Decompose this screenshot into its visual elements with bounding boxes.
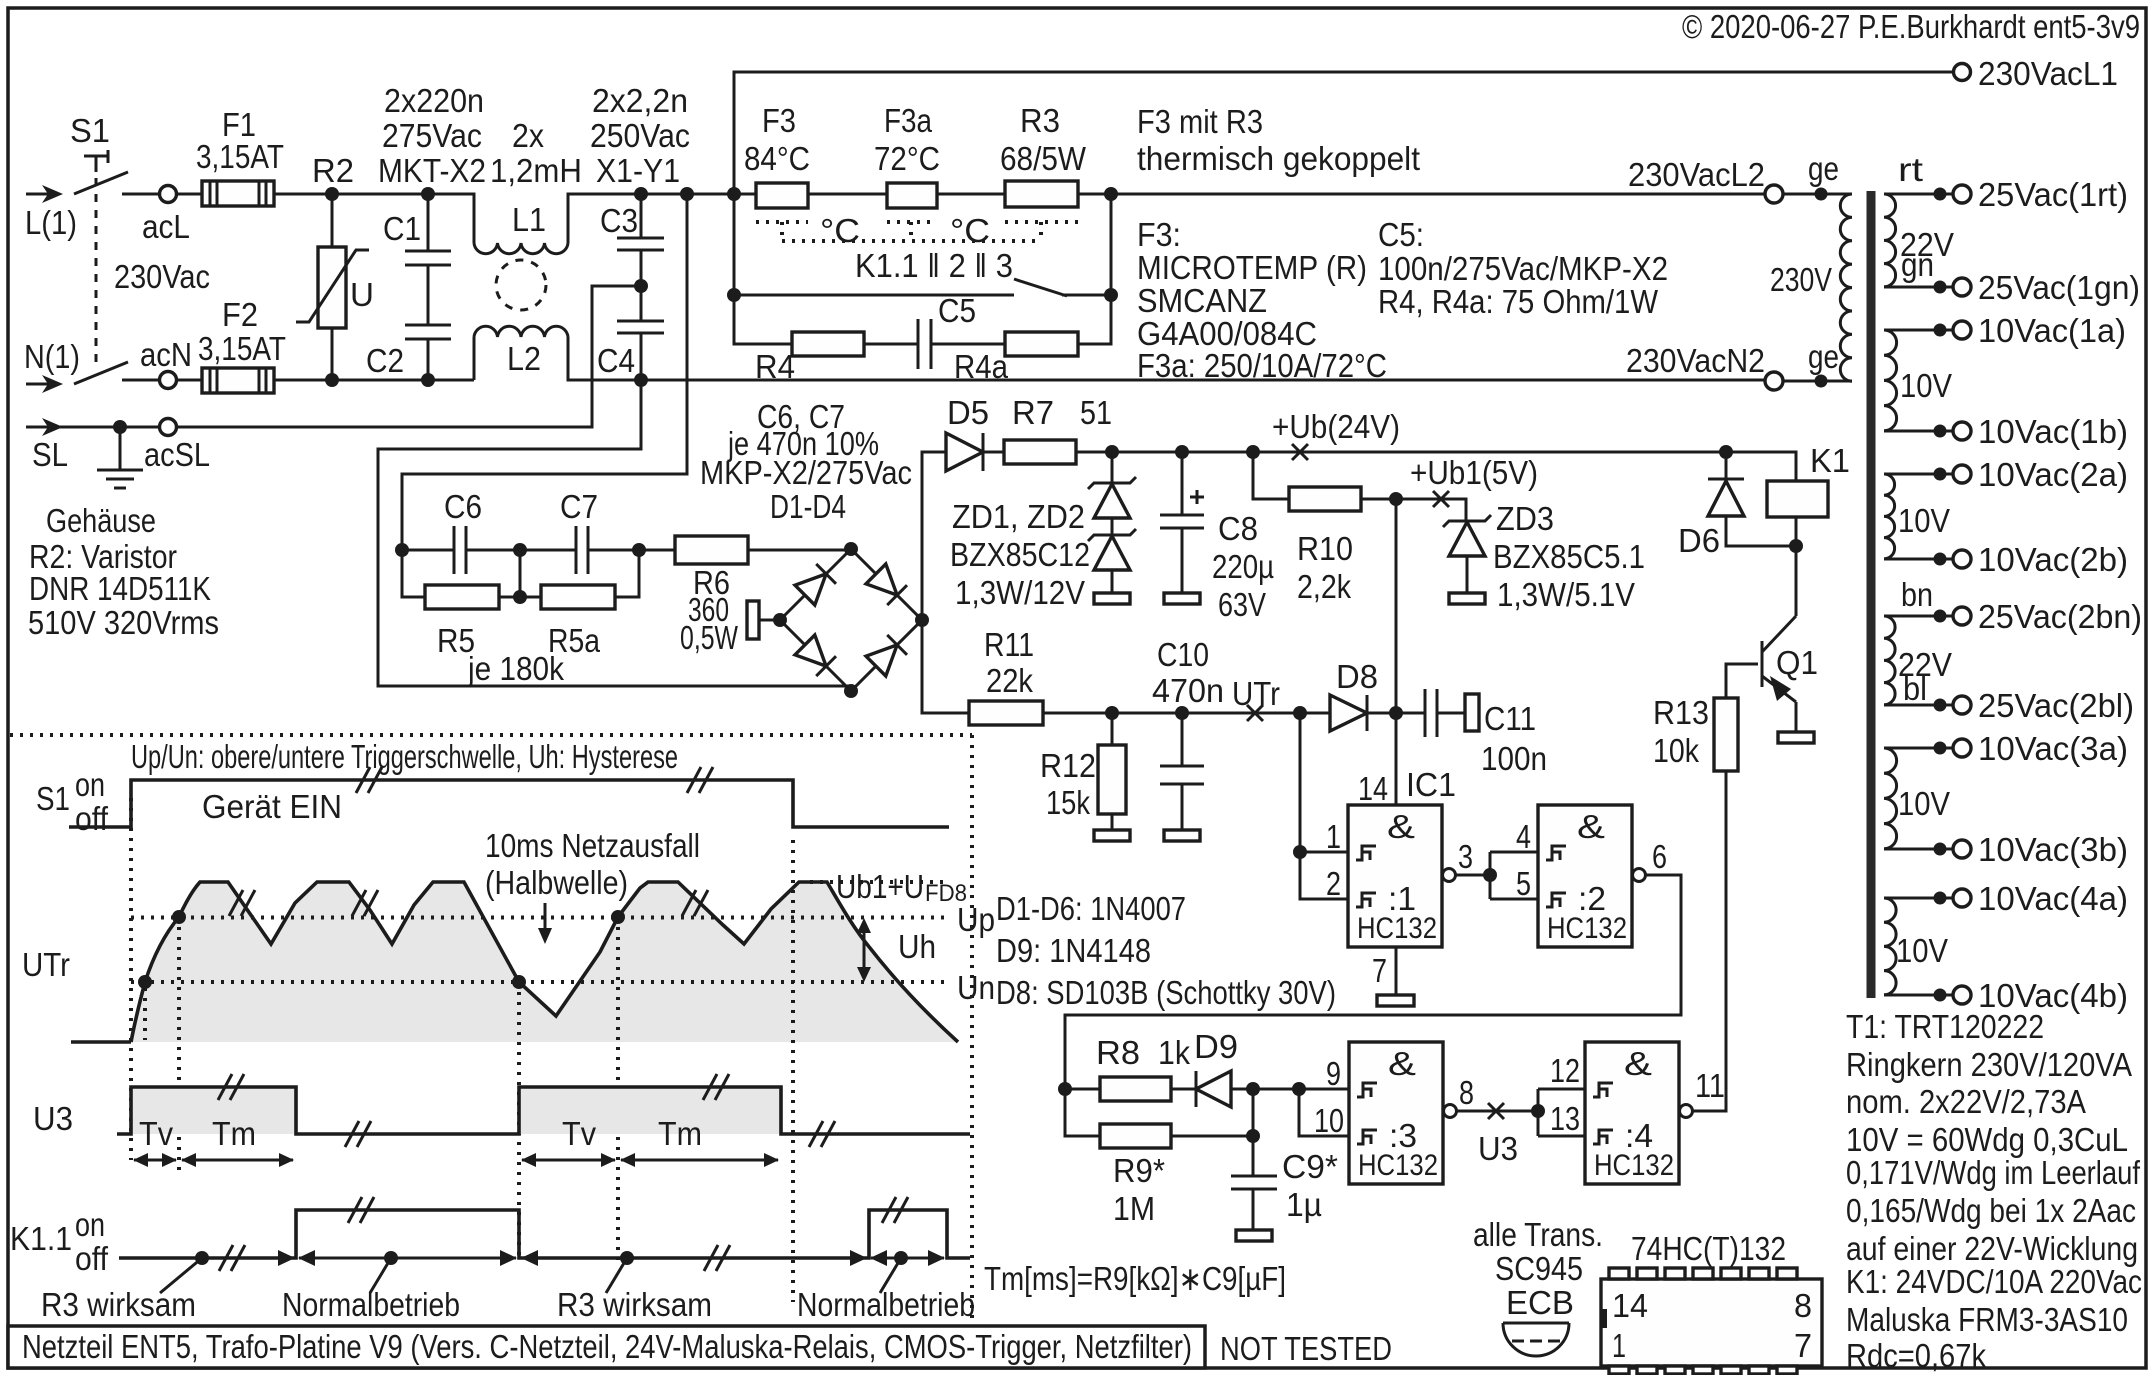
svg-text:C9*: C9* [1282,1148,1338,1185]
relay contact K1.1 blade [1014,279,1067,296]
svg-text:1: 1 [1326,818,1341,855]
capacitor C11 [1396,689,1479,737]
transistor Q1 [1762,616,1796,702]
wire tap 4b [1884,994,1953,997]
switch S1 pole L blade [74,172,128,194]
svg-text:L2: L2 [507,340,541,377]
callout line Normalbetrieb 2 [880,1258,901,1293]
svg-text:1,3W/12V: 1,3W/12V [955,574,1085,611]
svg-text:C7: C7 [560,488,598,525]
wire R5 to R5a [499,596,541,599]
wire N2 to primary [1783,380,1852,383]
node L-C1 [421,187,435,201]
dotted level Un [131,980,947,984]
svg-text:0,171V/Wdg im Leerlauf: 0,171V/Wdg im Leerlauf [1846,1154,2141,1191]
resistor R7 [1004,440,1076,464]
wire R8 to D9 [1171,1088,1196,1091]
wire N to acN [122,379,160,382]
secondary winding 22V-1 [1884,194,1896,287]
wire bridge plus down to R11 [922,620,969,713]
svg-text:S1: S1 [70,112,110,149]
arrow Tm2 [620,1153,779,1167]
svg-text:K1: K1 [1810,442,1850,479]
arrow Tm1 [181,1153,294,1167]
svg-text:acSL: acSL [144,436,210,473]
node rail R10 [1246,445,1260,459]
svg-text:acL: acL [142,208,190,245]
wire L(1) input [26,185,63,203]
svg-text:nom. 2x22V/2,73A: nom. 2x22V/2,73A [1846,1083,2086,1120]
wire bridge plus up to D5 [922,452,946,620]
svg-text:Gerät EIN: Gerät EIN [202,788,342,825]
svg-text:25Vac(2bn): 25Vac(2bn) [1978,598,2142,635]
capacitor C5 [918,319,931,369]
svg-text:0,165/Wdg bei 1x 2Aac: 0,165/Wdg bei 1x 2Aac [1846,1192,2136,1229]
dotted vertical Tv1 [177,917,181,1172]
capacitor C3 [617,194,664,286]
svg-text:10V = 60Wdg 0,3CuL: 10V = 60Wdg 0,3CuL [1846,1121,2128,1158]
terminal acSL [160,419,177,436]
svg-text:UTr: UTr [22,946,70,983]
terminal 25Vac(1gn) [1953,278,1971,296]
switch S1 linkage dashed [84,150,108,366]
arrow Tv2 [521,1153,616,1167]
node callout2 [384,1251,398,1265]
svg-text:10V: 10V [1900,367,1952,404]
secondary winding 10V-2 [1884,474,1895,559]
node L-branch [680,187,694,201]
svg-text:230VacL2: 230VacL2 [1628,156,1765,193]
terminal acN [160,372,177,389]
ground ZD2 [1094,593,1130,604]
pin7 ground wire [1395,947,1398,995]
node R3 right [1104,187,1118,201]
svg-text:R4, R4a: 75 Ohm/1W: R4, R4a: 75 Ohm/1W [1378,283,1659,320]
wire N to transformer [641,379,1766,382]
node bridge top [844,542,858,556]
node IC1 input tap [1293,706,1307,720]
wire Ub1 rail down [1395,499,1398,805]
svg-text:10Vac(2a): 10Vac(2a) [1978,456,2128,493]
svg-text:R11: R11 [984,626,1034,663]
net mark UTr [1247,705,1263,721]
capacitor C2 [405,325,451,380]
wire tap 3b [1884,848,1953,851]
node 2a [1934,468,1947,481]
wire R6 to bridge top [748,549,851,552]
node UTr Un fall [512,975,526,989]
wire F3a to R3 [937,193,1005,196]
svg-text:Tm: Tm [212,1115,256,1152]
svg-text:R7: R7 [1012,394,1054,431]
svg-text:51: 51 [1080,394,1112,431]
svg-text:Tv: Tv [562,1115,596,1152]
svg-text:X1-Y1: X1-Y1 [596,152,680,189]
svg-text:14: 14 [1612,1287,1648,1324]
wire L to F3 node [641,193,756,196]
schmitt mark gate2 b [1546,893,1566,907]
wire F1 to node R2 [274,193,428,196]
node pins1213 [1531,1104,1545,1118]
svg-text:1,2mH: 1,2mH [490,152,582,189]
svg-text:SMCANZ: SMCANZ [1137,282,1267,319]
svg-text:8: 8 [1459,1074,1474,1111]
break S1 a [356,767,382,793]
svg-text:230VacL1: 230VacL1 [1978,55,2118,92]
wire jog pins 4 5 [1490,852,1538,899]
svg-text:DNR 14D511K: DNR 14D511K [29,570,211,607]
break UTr a [229,890,255,916]
diode D9 [1196,1071,1299,1107]
node C10 [1175,706,1189,720]
svg-text:10Vac(1b): 10Vac(1b) [1978,413,2128,450]
ground Gehaeuse [97,427,143,488]
svg-text:D5: D5 [947,394,989,431]
node 4b [1934,989,1947,1002]
node bridge left [773,613,787,627]
svg-text:(Halbwelle): (Halbwelle) [485,864,628,901]
svg-text:R13: R13 [1653,694,1709,731]
node 1b [1934,425,1947,438]
resistor R11 [969,701,1043,725]
node N-R2 [325,373,339,387]
output bubble pin8 [1444,1105,1457,1118]
capacitor C10 [1160,713,1204,830]
wire pin 1 [1300,851,1348,854]
schmitt mark gate2 a [1546,846,1566,860]
svg-text:C4: C4 [597,342,635,379]
node ge bottom [1815,375,1828,388]
svg-text:10Vac(2b): 10Vac(2b) [1978,541,2128,578]
arrow K1.1 seg4 [870,1250,945,1266]
wire UTr row [1043,712,1330,715]
terminal 25Vac(2bl) [1953,696,1971,714]
waveform UTr curve [131,882,958,1042]
resistor R4 [792,332,864,356]
arrow K1.1 seg2 [298,1250,517,1266]
switch S1 pole N blade [74,362,128,384]
svg-text:10Vac(4a): 10Vac(4a) [1978,880,2128,917]
svg-text:Maluska FRM3-3AS10: Maluska FRM3-3AS10 [1846,1301,2128,1338]
net mark +Ub1(5V) [1433,491,1449,507]
wire jog pins 12 13 [1538,1089,1585,1136]
svg-text:1M: 1M [1113,1190,1155,1227]
IC package notch [1601,1309,1607,1328]
resistor R12 [1098,713,1126,830]
svg-text:UTr: UTr [1232,675,1280,712]
svg-text:10Vac(1a): 10Vac(1a) [1978,312,2126,349]
svg-text:D8: D8 [1336,658,1378,695]
wire tap 1gn [1884,286,1953,289]
svg-text:2x: 2x [512,117,544,154]
schmitt mark gate3 b [1357,1130,1377,1144]
svg-text:C2: C2 [366,342,404,379]
svg-text:D6: D6 [1678,522,1720,559]
IC package 74HC132 body [1601,1279,1822,1366]
svg-text:ECB: ECB [1506,1284,1574,1321]
svg-text:U3: U3 [1478,1130,1518,1167]
svg-text:auf einer 22V-Wicklung: auf einer 22V-Wicklung [1846,1230,2138,1267]
svg-text:Q1: Q1 [1776,644,1818,681]
svg-text:S1: S1 [36,780,70,817]
break U3 a [218,1074,244,1100]
svg-text:F2: F2 [222,296,258,333]
break U3 c [703,1074,729,1100]
wire +Ub rail [1076,451,1726,454]
svg-text:10Vac(3a): 10Vac(3a) [1978,730,2128,767]
schmitt mark gate4 a [1593,1083,1613,1097]
wire K1.1 branch left [734,194,792,344]
svg-text:&: & [1387,808,1415,845]
schmitt mark gate4 b [1593,1130,1613,1144]
trace K1.1 [119,1210,970,1258]
wire R9 to C9 [1171,1135,1253,1138]
fill U3 pulse1 [131,1087,296,1134]
gate IC1:3 body [1349,1042,1443,1184]
net mark U3 [1488,1103,1504,1119]
node D9 C9 [1246,1082,1260,1096]
svg-text:R9*: R9* [1113,1152,1165,1189]
fuse F1 [202,181,274,206]
node callout4 [894,1251,908,1265]
node SL ground [113,420,127,434]
node 1rt [1934,188,1947,201]
svg-text:Up: Up [957,901,995,938]
wire jog pin10 [1299,1089,1349,1136]
wire UTr to IC1 inputs [1300,713,1348,899]
break S1 b [687,767,713,793]
svg-text:230V: 230V [1770,261,1832,298]
svg-text:4: 4 [1516,818,1531,855]
wire R13 to base [1726,664,1758,698]
thermal coupling dotted [756,222,1078,241]
transistor SC945 case bottom view [1503,1323,1569,1356]
svg-text:D9: 1N4148: D9: 1N4148 [996,932,1151,969]
node 2bn [1934,610,1947,623]
node UTr Un rise [138,975,152,989]
dotted vertical fall Un [517,982,521,1262]
svg-text:T1: TRT120222: T1: TRT120222 [1846,1008,2044,1045]
svg-text:© 2020-06-27 P.E.Burkhardt ent: © 2020-06-27 P.E.Burkhardt ent5-3v9 [1682,8,2140,45]
node bridge bottom [844,684,858,698]
wire acN to F2 [177,379,202,382]
svg-text:R3: R3 [1020,102,1060,139]
svg-text:R3 wirksam: R3 wirksam [41,1286,196,1323]
wire L2 to primary [1783,193,1852,196]
svg-text:10V: 10V [1898,502,1950,539]
svg-text:3: 3 [1458,838,1473,875]
svg-text:Normalbetrieb: Normalbetrieb [282,1286,460,1323]
wire R8R9 left [1065,1089,1100,1136]
terminal 10Vac(4b) [1953,986,1971,1004]
node 1a [1934,324,1947,337]
connector pad at bridge minus [747,601,780,639]
terminal 10Vac(4a) [1953,889,1971,907]
node K1 bottom [1789,539,1803,553]
wire acSL to C3C4 mid [177,286,641,427]
wire SL to acSL [60,426,160,429]
node R12 [1105,706,1119,720]
svg-text:C11: C11 [1484,700,1536,737]
svg-text:on: on [75,1206,105,1243]
node R8 left [1058,1082,1072,1096]
node K1.1 left [727,288,741,302]
break UTr c [682,890,708,916]
node Ub1 [1389,492,1403,506]
arrow netzausfall [538,903,552,944]
wire K1.1 right [1062,294,1111,297]
svg-text:alle Trans.: alle Trans. [1473,1216,1603,1253]
wire F2 to C2 node [274,379,474,382]
fuse F2 [202,368,274,393]
svg-text:SL: SL [32,436,68,473]
diode D5 [946,433,1004,471]
svg-text:250Vac: 250Vac [590,117,690,154]
svg-text:R8: R8 [1096,1034,1140,1071]
svg-text:13: 13 [1550,1100,1580,1137]
terminal acL [160,186,177,203]
svg-text:Un: Un [957,969,995,1006]
svg-text:470n: 470n [1152,672,1224,709]
zener ZD1 [1088,452,1136,518]
arrow Uh [857,918,871,982]
wire R4 to C5 [864,343,918,346]
wire tap 2bn [1884,615,1953,618]
wire 230VacL1 rail [734,72,1954,194]
svg-text:F3: F3 [762,102,796,139]
ground Q1 [1778,732,1814,743]
ground pin7 [1377,995,1414,1006]
break K1.1 b [348,1197,374,1223]
svg-text:10k: 10k [1653,732,1699,769]
svg-text:11: 11 [1695,1067,1725,1104]
thermal fuse F3a [887,183,937,208]
wire pin6 feedback [1065,875,1681,1089]
wire L-branch to C6 ladder [402,194,687,550]
node UTr Up rise2 [611,910,625,924]
bridge rectifier D1-D4 frame [780,549,922,691]
node rail K1 [1719,445,1733,459]
diode D2 (top-right edge) [866,564,907,605]
svg-text:Tm: Tm [658,1115,702,1152]
svg-text:D8: SD103B (Schottky 30V): D8: SD103B (Schottky 30V) [996,974,1336,1011]
node 4a [1934,892,1947,905]
wire tap 2a [1884,473,1953,476]
schmitt mark gate1 a [1356,846,1376,860]
svg-text:HC132: HC132 [1357,912,1437,945]
output bubble pin11 [1680,1105,1693,1118]
svg-text:275Vac: 275Vac [382,117,482,154]
capacitor C9 [1231,1089,1277,1230]
node R9 C9 [1246,1129,1260,1143]
svg-text:F3 mit R3: F3 mit R3 [1137,103,1263,140]
svg-text:C8: C8 [1218,510,1258,547]
svg-text:100n: 100n [1481,740,1547,777]
svg-text:R3 wirksam: R3 wirksam [557,1286,712,1323]
svg-text:MKT-X2: MKT-X2 [378,152,486,189]
node C6 row left [395,543,409,557]
node R5-R5a [513,590,527,604]
diode D8 [1330,695,1396,731]
wire R8 row [1065,1088,1100,1091]
ground C8 [1164,593,1200,604]
node bridge right [915,613,929,627]
resistor R5 [425,585,499,609]
svg-text:2x2,2n: 2x2,2n [592,82,688,119]
terminal 10Vac(1b) [1953,422,1971,440]
diode D4 (bottom-right edge) [866,635,907,676]
ground R12 [1094,830,1130,841]
node pin9 tap [1292,1082,1306,1096]
svg-text:R10: R10 [1297,530,1353,567]
svg-text:R12: R12 [1040,747,1096,784]
svg-text:C1: C1 [383,210,421,247]
svg-text:Ringkern 230V/120VA: Ringkern 230V/120VA [1846,1046,2132,1083]
svg-text:SC945: SC945 [1495,1250,1583,1287]
svg-text:BZX85C5.1: BZX85C5.1 [1493,538,1645,575]
capacitor C6 [402,526,520,574]
net mark +Ub(24V) [1292,444,1308,460]
diode D1 (left-top edge) [795,564,836,605]
break K1.1 c [704,1245,730,1271]
svg-text:10: 10 [1314,1102,1344,1139]
wire R5a right vertical [615,550,639,597]
svg-text:ge: ge [1808,150,1839,187]
resistor R4a [1005,332,1078,356]
svg-text:&: & [1388,1045,1416,1082]
resistor R10 [1289,487,1361,511]
svg-text:7: 7 [1372,952,1387,989]
inductor L1 [428,194,641,254]
svg-text:NOT TESTED: NOT TESTED [1220,1330,1392,1367]
svg-text:C3: C3 [600,202,638,239]
wire SL input [26,418,63,436]
timing diagram dotted border [10,735,972,1326]
svg-text:K1.1 ‖ 2 ‖ 3: K1.1 ‖ 2 ‖ 3 [855,247,1013,284]
output bubble pin3 [1443,869,1456,882]
svg-text:15k: 15k [1046,784,1090,821]
wire rail to K1 [1726,452,1796,481]
wire R10 branch [1253,452,1289,499]
svg-text:25Vac(1gn): 25Vac(1gn) [1978,269,2140,306]
svg-text:63V: 63V [1218,586,1266,623]
svg-text:C5: C5 [938,292,976,329]
relay coil K1 [1767,452,1828,546]
wire tap 2b [1884,558,1953,561]
arrow Tv1 [133,1153,177,1167]
node C7 right [632,543,646,557]
svg-text:on: on [75,766,105,803]
svg-text:MICROTEMP (R): MICROTEMP (R) [1137,249,1367,286]
svg-text:6: 6 [1652,838,1667,875]
svg-text:5: 5 [1516,865,1531,902]
title box [8,1326,1205,1368]
zener ZD2 [1088,518,1136,593]
wire R3 to trafo [1078,193,1766,196]
svg-text:Tv: Tv [139,1115,173,1152]
gate IC1:1 body [1348,805,1442,947]
node callout1 [195,1251,209,1265]
svg-text:ZD1, ZD2: ZD1, ZD2 [952,498,1085,535]
svg-text:2x220n: 2x220n [384,82,484,119]
wire emitter to ground [1795,702,1798,732]
svg-text:12: 12 [1550,1052,1580,1089]
svg-text:230VacN2: 230VacN2 [1626,342,1765,379]
label Ub1+UFD8 [836,868,967,907]
dotted vertical Un crossing [143,988,147,1040]
svg-text:2: 2 [1326,865,1341,902]
svg-text:9: 9 [1326,1055,1341,1092]
